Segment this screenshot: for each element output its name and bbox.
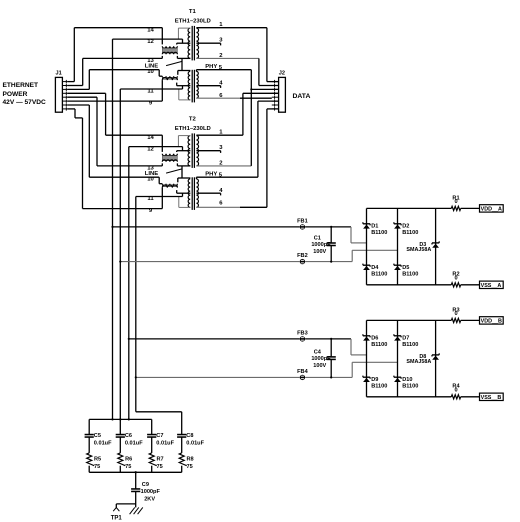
svg-text:J1: J1 xyxy=(55,71,61,77)
junction C1 bottom xyxy=(330,261,332,263)
wire T2 line14 xyxy=(106,134,163,136)
T2 primary winding B xyxy=(188,179,190,207)
svg-text:D1: D1 xyxy=(371,223,378,229)
svg-text:J2: J2 xyxy=(279,71,285,77)
wire shelf to C5 C7 xyxy=(89,418,152,420)
svg-text:ETH1–230LD: ETH1–230LD xyxy=(175,126,211,132)
wire bridge middle column xyxy=(397,320,399,396)
wire J1.8 dropper xyxy=(67,108,75,110)
connector J2 pins xyxy=(272,81,279,83)
svg-text:R8: R8 xyxy=(187,456,194,462)
wire T1 pin11 jog xyxy=(182,86,184,89)
svg-text:C4: C4 xyxy=(314,349,322,355)
junction C1 top xyxy=(330,226,332,228)
svg-text:VDD__B: VDD__B xyxy=(481,319,502,325)
wire T1 line13 xyxy=(83,57,163,59)
svg-text:D5: D5 xyxy=(402,265,409,271)
diode D1 xyxy=(363,223,370,225)
T1 primary winding A xyxy=(188,28,190,58)
wire bridge input top xyxy=(350,227,352,243)
T1 center tap diagonal xyxy=(166,61,182,65)
capacitor C6 xyxy=(116,434,125,436)
wire J1.7 dropper xyxy=(67,104,89,106)
T2 secondary winding B xyxy=(196,179,198,207)
junction FB1 feeder xyxy=(111,226,113,228)
capacitor C9 xyxy=(131,488,140,490)
svg-text:C5: C5 xyxy=(94,433,101,439)
wire FB2 line xyxy=(120,261,299,263)
svg-text:POWER: POWER xyxy=(3,91,28,98)
wire bottom rail xyxy=(89,471,182,473)
T2 choke B core xyxy=(162,185,177,187)
junction shelf a xyxy=(111,418,113,420)
T1 core A xyxy=(191,26,193,61)
T2 core B xyxy=(191,177,193,210)
wire FB4 line xyxy=(136,376,300,378)
svg-text:0: 0 xyxy=(454,388,457,394)
wire C9 to ground xyxy=(135,492,137,508)
T1 primary winding B xyxy=(188,71,190,99)
svg-text:75: 75 xyxy=(94,464,100,470)
T2 center tap diagonal xyxy=(166,169,182,173)
svg-text:0.01uF: 0.01uF xyxy=(125,441,143,447)
wire shelf to C8 xyxy=(136,411,182,413)
wire C9 stem xyxy=(135,472,137,489)
ferrite bead FB2 xyxy=(300,259,305,264)
wire T2 pin11 jog xyxy=(182,193,184,196)
svg-text:C6: C6 xyxy=(125,433,132,439)
wire T2 pin10 jog xyxy=(158,177,160,184)
wire bridge tvs column xyxy=(435,320,437,396)
wire T1 primary B bottom link xyxy=(178,89,180,100)
wire bottom rail xyxy=(367,396,452,398)
wire FB1 line xyxy=(113,226,300,228)
svg-text:2KV: 2KV xyxy=(144,496,155,502)
T1 secondary winding A xyxy=(196,28,198,58)
svg-text:R6: R6 xyxy=(125,456,132,462)
svg-text:T1: T1 xyxy=(189,9,197,15)
wire T2 pin2 line xyxy=(196,165,251,167)
svg-text:100V: 100V xyxy=(313,249,326,255)
resistor R4 xyxy=(451,395,460,399)
wire T2 pin14 line xyxy=(161,135,163,152)
svg-text:D2: D2 xyxy=(402,223,409,229)
svg-text:C7: C7 xyxy=(156,433,163,439)
wire FB1 feeder xyxy=(112,39,114,419)
svg-text:1000pF: 1000pF xyxy=(141,489,161,495)
svg-text:VDD__A: VDD__A xyxy=(481,207,502,213)
T2 secondary winding A xyxy=(196,136,198,166)
wire R6 to rail xyxy=(119,466,121,473)
wire T1 pin12 jog xyxy=(182,39,184,43)
T1 choke A core xyxy=(162,48,177,53)
svg-text:D4: D4 xyxy=(371,265,379,271)
svg-text:VSS__A: VSS__A xyxy=(481,283,502,289)
wire to vdd box xyxy=(461,207,480,209)
wire bridge tvs column xyxy=(435,208,437,284)
wire T2 primary B top xyxy=(178,177,191,179)
T2 choke B bottom winding xyxy=(162,185,177,188)
svg-text:0: 0 xyxy=(454,199,457,205)
connector J1 xyxy=(55,77,62,112)
wire T1 pin6 line xyxy=(196,97,240,99)
wire J1.4 dropper xyxy=(67,92,105,94)
svg-text:B1100: B1100 xyxy=(371,272,387,278)
wire T1 line11 xyxy=(120,88,182,90)
wire T2 line12 xyxy=(129,146,183,148)
wire T1 pin2 line xyxy=(196,57,259,59)
wire C5 to R5 xyxy=(88,437,90,453)
svg-text:D7: D7 xyxy=(402,335,409,341)
T2 choke A core xyxy=(162,156,177,161)
svg-text:D9: D9 xyxy=(371,377,378,383)
svg-text:0.01uF: 0.01uF xyxy=(156,441,174,447)
svg-text:R7: R7 xyxy=(157,456,164,462)
wire to vdd box xyxy=(461,319,480,321)
wire T1 primary A top link xyxy=(177,28,179,39)
svg-text:C8: C8 xyxy=(186,433,193,439)
capacitor C5 xyxy=(85,434,94,436)
wire R5 to rail xyxy=(88,466,90,473)
wire T1 pin3 stub xyxy=(196,42,220,44)
svg-text:SMAJ58A: SMAJ58A xyxy=(406,359,431,365)
diode D7 xyxy=(394,335,401,337)
svg-text:1000pF: 1000pF xyxy=(311,242,331,248)
T1 choke A top winding xyxy=(162,46,177,48)
wire T1.1 to J2.1 xyxy=(266,28,268,82)
svg-text:VSS__B: VSS__B xyxy=(481,395,502,401)
svg-text:B1100: B1100 xyxy=(371,342,387,348)
wire T1 line14 xyxy=(74,27,162,29)
connector J2 xyxy=(279,77,286,112)
ferrite bead FB3 xyxy=(300,336,305,341)
svg-text:R5: R5 xyxy=(94,456,101,462)
svg-text:TP1: TP1 xyxy=(111,515,123,521)
wire FB3 feeder xyxy=(128,147,130,420)
resistor R6 xyxy=(118,453,126,466)
T2 core A xyxy=(191,133,193,168)
wire R8 to rail xyxy=(181,466,183,473)
svg-text:B1100: B1100 xyxy=(402,230,418,236)
svg-text:75: 75 xyxy=(157,464,163,470)
resistor R2 xyxy=(451,283,460,287)
svg-text:D6: D6 xyxy=(371,335,378,341)
resistor R3 xyxy=(451,318,460,322)
T1 choke A bottom winding xyxy=(162,52,177,54)
wire T2 pin9 link xyxy=(161,188,163,209)
TVS diode D8 xyxy=(432,354,439,356)
T2 choke B top winding xyxy=(162,184,177,186)
T1 choke B core xyxy=(162,77,177,79)
wire ground branch xyxy=(116,503,135,505)
svg-text:ETHERNET: ETHERNET xyxy=(3,82,39,89)
wire T2 line13 xyxy=(97,165,162,167)
svg-text:ETH1–230LD: ETH1–230LD xyxy=(175,19,211,25)
T2 choke A top winding xyxy=(162,154,177,156)
wire T1 primary A bottom xyxy=(177,57,190,59)
wire to vss box xyxy=(461,396,480,398)
wire T1 line9 xyxy=(67,100,162,102)
wire FB2 feeder xyxy=(119,89,121,434)
wire T1 pin14 line xyxy=(161,28,163,45)
svg-text:B1100: B1100 xyxy=(371,384,387,390)
svg-text:42V — 57VDC: 42V — 57VDC xyxy=(3,99,46,106)
wire J2.4 to T2.1 xyxy=(242,93,244,135)
svg-text:D10: D10 xyxy=(402,377,412,383)
svg-text:75: 75 xyxy=(187,464,193,470)
wire T2 pin4 stub xyxy=(196,192,220,194)
junction C4 top xyxy=(330,338,332,340)
wire J1.3 riser xyxy=(67,88,89,90)
capacitor C1 xyxy=(330,227,332,243)
wire top rail xyxy=(367,207,452,209)
net label VSS__A xyxy=(480,281,504,288)
wire FB3 line xyxy=(129,338,300,340)
svg-text:DATA: DATA xyxy=(293,93,311,100)
ferrite bead FB1 xyxy=(300,224,305,229)
wire J1.1 riser xyxy=(67,81,74,83)
wire T2 pin3 stub xyxy=(196,150,220,152)
junction FB4 feeder xyxy=(135,376,137,378)
svg-text:FB3: FB3 xyxy=(297,331,308,337)
svg-text:100V: 100V xyxy=(313,363,326,369)
wire T2 primary B bottom link xyxy=(178,197,180,208)
diode D6 xyxy=(363,335,370,337)
junction FB3 feeder xyxy=(128,338,130,340)
wire T1 center bus xyxy=(181,58,183,70)
wire T1 line12 xyxy=(113,38,183,40)
junction shelf b xyxy=(119,418,121,420)
resistor R7 xyxy=(149,453,157,466)
wire T2 pin1 line xyxy=(196,134,243,136)
wire T1 pin5 line xyxy=(196,69,251,71)
wire bridge input top xyxy=(350,339,352,355)
capacitor C7 xyxy=(147,434,156,436)
wire T1 primary B top xyxy=(178,70,191,72)
junction FB2 feeder xyxy=(119,261,121,263)
wire T2 pin6 line xyxy=(196,206,240,208)
svg-text:FB4: FB4 xyxy=(297,369,308,375)
wire T2 pin13 link xyxy=(161,163,163,166)
T1 core B xyxy=(191,70,193,103)
wire bridge middle column xyxy=(397,208,399,284)
wire T1 pin10 jog xyxy=(158,70,160,77)
svg-text:T2: T2 xyxy=(189,117,197,123)
T1 secondary winding B xyxy=(196,71,198,98)
T1 choke B bottom winding xyxy=(162,78,177,81)
wire T2 pin12 jog xyxy=(182,147,184,151)
diode D5 xyxy=(394,264,401,266)
diode D9 xyxy=(363,376,370,378)
svg-text:FB2: FB2 xyxy=(297,253,308,259)
net label VSS__B xyxy=(480,393,504,400)
wire C8 to R8 xyxy=(181,437,183,453)
T2 primary winding A xyxy=(188,136,190,166)
wire bottom rail xyxy=(367,284,452,286)
wire T2 line9 xyxy=(83,208,163,210)
capacitor C4 xyxy=(330,339,332,357)
wire T1 pin1 line xyxy=(196,27,267,29)
wire T2 line11 xyxy=(136,196,183,198)
svg-text:B1100: B1100 xyxy=(371,230,387,236)
wire T2 pin5 line xyxy=(196,176,258,178)
svg-text:75: 75 xyxy=(125,464,131,470)
wire T1 pin13 link xyxy=(161,56,163,59)
wire T1 pin4 stub xyxy=(196,85,220,87)
TVS diode D3 xyxy=(432,242,439,244)
wire J2.8 to T2.6 xyxy=(266,109,268,207)
connector J1 pins xyxy=(62,81,67,83)
svg-text:FB1: FB1 xyxy=(297,219,308,225)
wire to vss box xyxy=(461,284,480,286)
wire C6 to R6 xyxy=(119,437,121,453)
svg-text:SMAJ58A: SMAJ58A xyxy=(406,247,431,253)
wire C7 to R7 xyxy=(151,437,153,453)
wire top rail xyxy=(367,319,452,321)
wire T2 center bus xyxy=(181,166,183,178)
wire J1.5 dropper xyxy=(67,96,97,98)
svg-text:B1100: B1100 xyxy=(402,272,418,278)
T2 choke A bottom winding xyxy=(162,160,177,162)
svg-text:0: 0 xyxy=(454,276,457,282)
junction J2 pin3 column xyxy=(250,88,252,90)
wire bridge left column xyxy=(366,320,368,396)
wire T2 line10 xyxy=(89,176,159,178)
diode D4 xyxy=(363,264,370,266)
svg-text:12: 12 xyxy=(147,146,154,152)
resistor R5 xyxy=(87,453,95,466)
svg-text:0.01uF: 0.01uF xyxy=(186,441,204,447)
resistor R8 xyxy=(179,453,187,466)
svg-text:C9: C9 xyxy=(142,482,149,488)
wire T1 line10 xyxy=(89,69,159,71)
wire T1.5 to J2.3 and T2.2 xyxy=(250,70,252,166)
net label VDD__B xyxy=(480,317,504,324)
wire J2.6 to T2.5 xyxy=(257,101,259,177)
junction C4 bottom xyxy=(330,376,332,378)
resistor R1 xyxy=(451,206,460,210)
wire T1.2 to J2.2 xyxy=(258,58,260,85)
wire T1 pin9 link xyxy=(161,80,163,101)
diode D10 xyxy=(394,376,401,378)
wire T2 primary A bottom xyxy=(177,165,190,167)
wire T2 primary A top link xyxy=(177,136,179,147)
T1 choke B top winding xyxy=(162,76,177,78)
svg-text:B1100: B1100 xyxy=(402,342,418,348)
ground xyxy=(130,507,135,514)
svg-text:0.01uF: 0.01uF xyxy=(94,441,112,447)
capacitor C8 xyxy=(177,434,186,436)
wire FB4 feeder xyxy=(135,197,137,412)
svg-text:B1100: B1100 xyxy=(402,384,418,390)
test point TP1 xyxy=(113,508,119,512)
wire bridge input bottom xyxy=(351,362,353,377)
wire J1.2 riser xyxy=(67,85,82,87)
wire R7 to rail xyxy=(151,466,153,473)
svg-text:12: 12 xyxy=(147,39,154,45)
diode D2 xyxy=(394,223,401,225)
wire bridge left column xyxy=(366,208,368,284)
svg-text:1000pF: 1000pF xyxy=(311,356,331,362)
svg-text:0: 0 xyxy=(454,311,457,317)
net label VDD__A xyxy=(480,205,504,212)
ferrite bead FB4 xyxy=(300,375,305,380)
wire bridge input bottom xyxy=(351,250,353,261)
junction shelf c xyxy=(128,418,130,420)
svg-text:C1: C1 xyxy=(314,236,321,242)
